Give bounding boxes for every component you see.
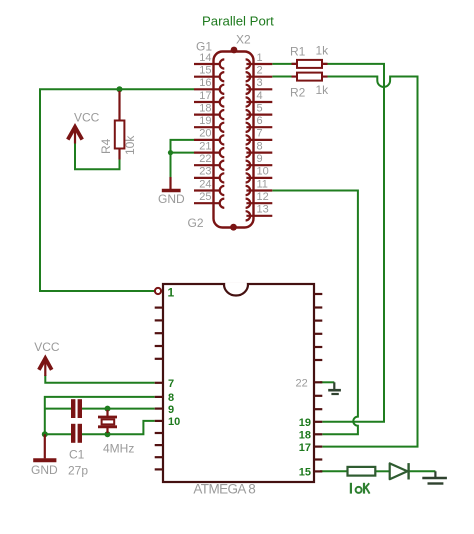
- svg-text:G2: G2: [188, 216, 204, 230]
- ATMEGA8 right pin stub: [314, 446, 322, 448]
- ATMEGA8 left pin stub: [155, 332, 163, 334]
- X2 pin 25: [194, 191, 224, 208]
- svg-text:R2: R2: [290, 86, 306, 100]
- wire gnd rail to ATMEGA pin8: [45, 397, 155, 434]
- svg-text:10: 10: [257, 166, 269, 178]
- X2 pin 10: [246, 166, 273, 183]
- ATMEGA8 right pin stub: [314, 470, 322, 472]
- X2 pin 15: [194, 65, 224, 82]
- X2 pin 4: [246, 90, 273, 107]
- resistor 10k: [348, 467, 376, 476]
- svg-text:9: 9: [168, 404, 174, 416]
- svg-text:4: 4: [257, 90, 263, 102]
- node gnd rail junction: [42, 431, 48, 437]
- X2 pin 12: [246, 191, 273, 208]
- X2 pin 5: [246, 102, 273, 119]
- VCC symbol upper: [68, 127, 82, 144]
- diode D1: [390, 463, 409, 479]
- svg-text:17: 17: [299, 442, 311, 454]
- wire C1b to ATMEGA pin10: [82, 421, 155, 434]
- svg-text:27p: 27p: [68, 464, 88, 478]
- ATMEGA8 left pin stub: [155, 382, 163, 384]
- wire gnd junction to C1b: [45, 433, 71, 435]
- wire ATMEGA pin22 to gnd: [320, 381, 334, 383]
- node crystal top junction: [105, 406, 111, 412]
- X2 pin 1: [246, 52, 273, 69]
- svg-text:X2: X2: [236, 33, 251, 47]
- X2 pin 14: [194, 52, 224, 69]
- X2 pin 3: [246, 77, 273, 94]
- wire C1a to ATMEGA pin9: [82, 408, 155, 410]
- X2 pin 2: [246, 65, 273, 82]
- X2 pin 7: [246, 128, 273, 145]
- svg-text:15: 15: [199, 65, 211, 77]
- ATMEGA8 right pin stub: [314, 433, 322, 435]
- svg-text:8: 8: [168, 392, 174, 404]
- wire X2 pin21 to gnd rail: [171, 152, 195, 154]
- svg-text:20: 20: [199, 128, 211, 140]
- X2 pin 21: [194, 140, 224, 157]
- svg-text:Parallel Port: Parallel Port: [202, 13, 274, 28]
- X2 pin 20: [194, 128, 224, 145]
- svg-text:3: 3: [257, 77, 263, 89]
- ATMEGA8 left pin stub: [155, 444, 163, 446]
- svg-text:8: 8: [257, 140, 263, 152]
- wire X2 pin2 to R2: [272, 76, 297, 78]
- X2 pin 17: [194, 90, 224, 107]
- svg-text:6: 6: [257, 115, 263, 127]
- svg-text:10k: 10k: [123, 135, 137, 155]
- svg-text:G1: G1: [196, 40, 212, 54]
- ATMEGA8 left pin stub: [155, 420, 163, 422]
- svg-text:13: 13: [257, 204, 269, 216]
- resistor R4: [115, 91, 125, 160]
- svg-text:9: 9: [257, 153, 263, 165]
- svg-text:18: 18: [299, 430, 311, 442]
- svg-text:12: 12: [257, 191, 269, 203]
- ATMEGA8 left pin stub: [155, 432, 163, 434]
- wire VCC to R4 bottom: [75, 143, 120, 169]
- resistor R2: [297, 73, 322, 81]
- svg-text:21: 21: [199, 140, 211, 152]
- resistor R2 pins: [292, 75, 328, 77]
- X2 pin 24: [194, 178, 224, 195]
- wire VCC to ATMEGA pin7: [45, 375, 154, 383]
- svg-text:1k: 1k: [316, 44, 330, 58]
- connector bottom pin dot: [230, 224, 237, 231]
- X2 pin 9: [246, 153, 273, 170]
- X2 pin 18: [194, 102, 224, 119]
- X2 pin 19: [194, 115, 224, 132]
- wire X2 pin20 to gnd rail: [171, 140, 195, 179]
- wire X2 pin1 to R1: [272, 63, 297, 65]
- svg-text:7: 7: [257, 128, 263, 140]
- svg-text:1: 1: [257, 52, 263, 64]
- ATMEGA8 pin1 bubble: [155, 288, 161, 294]
- svg-text:14: 14: [199, 52, 211, 64]
- svg-text:16: 16: [199, 77, 211, 89]
- svg-text:22: 22: [199, 153, 211, 165]
- connector X2 body: [214, 52, 254, 228]
- X2 pin 13: [246, 204, 273, 221]
- wire resistor to diode: [375, 470, 389, 472]
- svg-text:18: 18: [199, 102, 211, 114]
- resistor R1 pins: [292, 63, 328, 65]
- X2 pin 23: [194, 166, 224, 183]
- svg-text:GND: GND: [31, 463, 58, 477]
- ATMEGA8 left pin stub: [155, 396, 163, 398]
- ATMEGA8 left pin stub: [155, 345, 163, 347]
- node crystal bottom junction: [105, 431, 111, 437]
- ATMEGA8 right pin stub: [314, 408, 322, 410]
- ATMEGA8 right pin stub: [314, 421, 322, 423]
- ground at pin 22: [328, 382, 341, 394]
- svg-text:19: 19: [199, 115, 211, 127]
- svg-text:17: 17: [199, 90, 211, 102]
- svg-text:24: 24: [199, 178, 211, 190]
- ATMEGA8 right pin stub: [314, 359, 322, 361]
- svg-text:7: 7: [168, 378, 174, 390]
- svg-text:1k: 1k: [316, 83, 330, 97]
- ATMEGA8 right pin stub: [314, 346, 322, 348]
- svg-text:1: 1: [168, 285, 175, 299]
- svg-text:22: 22: [296, 378, 308, 390]
- value 10K: [351, 483, 370, 494]
- wire R2 to ATMEGA pin17 with hop: [322, 77, 418, 447]
- wire diode to gnd: [409, 470, 436, 472]
- wire ATMEGA pin15 to resistor: [320, 470, 348, 472]
- X2 pin 16: [194, 77, 224, 94]
- svg-text:4MHz: 4MHz: [103, 441, 134, 455]
- ground lower left: [33, 434, 56, 460]
- VCC symbol lower: [39, 358, 52, 376]
- svg-text:5: 5: [257, 102, 263, 114]
- svg-text:C1: C1: [69, 448, 85, 462]
- ATMEGA8 left pin stub: [155, 307, 163, 309]
- wire gnd rail to C1a: [45, 408, 71, 410]
- wire pin16 rail to ATMEGA pin1: [40, 89, 194, 291]
- ATMEGA8 left pin stub: [155, 468, 163, 470]
- resistor R1: [297, 60, 322, 68]
- ATMEGA8 right pin stub: [314, 293, 322, 295]
- node pin21 junction: [168, 150, 173, 155]
- svg-text:23: 23: [199, 166, 211, 178]
- svg-text:R4: R4: [99, 138, 113, 154]
- X2 pin 11: [246, 178, 273, 195]
- ATMEGA8 right pin stub: [314, 395, 322, 397]
- ATMEGA8 right pin stub: [314, 306, 322, 308]
- ATMEGA8 right pin stub: [314, 458, 322, 460]
- X2 pin 22: [194, 153, 224, 170]
- svg-text:R1: R1: [290, 45, 306, 59]
- svg-text:VCC: VCC: [74, 110, 100, 124]
- ATMEGA8 left pin stub: [155, 456, 163, 458]
- connector top pin dot: [231, 47, 238, 54]
- node R4 top junction: [117, 86, 123, 92]
- svg-text:ATMEGA 8: ATMEGA 8: [193, 482, 255, 497]
- svg-text:10: 10: [168, 416, 180, 428]
- ATMEGA8 right pin stub: [314, 381, 322, 383]
- ATMEGA8 right pin stub: [314, 333, 322, 335]
- svg-text:VCC: VCC: [34, 340, 60, 354]
- ATMEGA8 notch: [225, 283, 247, 286]
- wire X2 pin11 to ATMEGA pin18 with hop: [272, 191, 358, 435]
- crystal Q1 4MHz: [98, 410, 117, 433]
- svg-text:GND: GND: [158, 192, 185, 206]
- X2 pin 8: [246, 140, 273, 157]
- ATMEGA8 left pin stub: [155, 408, 163, 410]
- svg-text:25: 25: [199, 191, 211, 203]
- ATMEGA8 left pin stub: [155, 358, 163, 360]
- ATMEGA8 right pin stub: [314, 320, 322, 322]
- ground mid: [162, 177, 181, 191]
- svg-text:2: 2: [257, 65, 263, 77]
- capacitor C1b: [73, 424, 80, 443]
- ATMEGA8 left pin stub: [155, 319, 163, 321]
- op-amp U1 ATMEGA8 body: [163, 284, 314, 482]
- svg-text:11: 11: [257, 178, 268, 190]
- svg-text:19: 19: [299, 417, 311, 429]
- X2 pin 6: [246, 115, 273, 132]
- svg-text:15: 15: [299, 467, 311, 479]
- capacitor C1a: [73, 399, 80, 418]
- wire R1 to ATMEGA pin19: [322, 64, 384, 422]
- ground bottom right: [422, 471, 447, 483]
